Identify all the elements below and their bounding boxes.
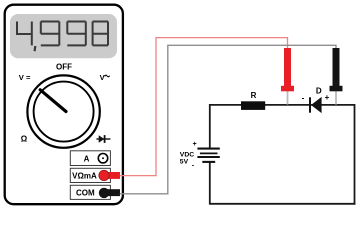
dial pointer (set to V dc) — [40, 90, 66, 112]
display digit 8 — [93, 22, 108, 46]
display digit 9 (second) — [67, 22, 86, 46]
svg-text:Ω: Ω — [21, 134, 28, 143]
black probe body — [333, 48, 340, 87]
svg-text:OFF: OFF — [56, 63, 72, 72]
display digit 9 (first) — [41, 22, 60, 46]
rotary dial outer ring — [27, 75, 99, 147]
wire: bottom return — [210, 203, 356, 205]
red banana plug in VOhmmA jack — [104, 172, 121, 179]
diode D (cathode bar and triangle) — [309, 97, 311, 112]
wire: left side upper (to battery +) — [209, 104, 211, 148]
jack A socket — [98, 154, 107, 163]
jack VOhmmA box and label — [70, 168, 110, 182]
svg-text:5V: 5V — [180, 158, 189, 165]
wire: top (battery + through R and D to right side) — [210, 104, 355, 106]
black banana plug in COM jack — [104, 189, 121, 196]
svg-text:A: A — [84, 154, 90, 163]
red probe body — [284, 48, 291, 87]
svg-text:+: + — [193, 141, 197, 148]
jack A box and label — [70, 151, 110, 166]
wire: left side lower (from battery -) — [209, 162, 211, 205]
svg-text:-: - — [302, 93, 305, 102]
svg-text:VDC: VDC — [180, 151, 194, 158]
svg-text:R: R — [251, 91, 257, 100]
red probe tip — [287, 91, 289, 105]
dial diode-test symbol — [96, 135, 110, 143]
red test lead wire (VOhmmA jack to red probe) — [120, 38, 288, 176]
display digit 4 — [16, 22, 32, 46]
multimeter LCD display — [10, 14, 117, 58]
svg-text:V =: V = — [19, 73, 31, 82]
wire: right side — [354, 104, 356, 205]
multimeter M1 body — [5, 5, 123, 205]
black test lead wire (COM jack to black probe) — [120, 45, 336, 194]
svg-text:+: + — [325, 93, 330, 102]
svg-text:VΩmA: VΩmA — [72, 172, 97, 181]
display decimal comma — [33, 46, 36, 51]
svg-text:D: D — [316, 87, 322, 96]
black probe tip — [335, 91, 337, 105]
svg-text:COM: COM — [76, 189, 95, 198]
jack COM box and label — [70, 185, 110, 199]
battery B1 VDC 5V — [197, 149, 219, 162]
rotary dial knob circle — [34, 82, 94, 142]
resistor R — [241, 101, 265, 110]
